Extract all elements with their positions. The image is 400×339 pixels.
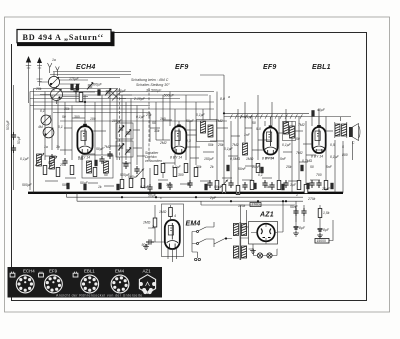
svg-text:500µF: 500µF	[22, 183, 33, 187]
svg-text:100: 100	[160, 117, 166, 121]
EM4 cathode cap	[146, 239, 154, 244]
tube top cap EBL1	[317, 117, 321, 127]
svg-text:7M2: 7M2	[216, 119, 223, 123]
oscillator coil can	[51, 86, 63, 104]
resistor row above ground bus	[43, 164, 328, 195]
svg-text:15000: 15000	[317, 239, 327, 243]
tube ECH4	[77, 126, 92, 154]
svg-text:270Ω: 270Ω	[252, 203, 261, 207]
screen feed line	[223, 112, 309, 114]
tube top cap EF9b	[269, 117, 273, 128]
svg-text:8µF: 8µF	[299, 226, 306, 230]
svg-text:a: a	[228, 95, 230, 99]
svg-text:120k: 120k	[238, 204, 246, 208]
svg-text:Schalter-Stellung 30°: Schalter-Stellung 30°	[136, 83, 170, 87]
mains switch	[192, 222, 232, 261]
switch trimmer box upper	[116, 123, 133, 139]
svg-text:1MΩ: 1MΩ	[159, 210, 167, 214]
tube EF9 (1st)	[172, 126, 187, 154]
svg-text:0,1µF: 0,1µF	[224, 147, 234, 151]
AZ1 enclosure box	[249, 222, 278, 245]
svg-text:50: 50	[62, 115, 66, 119]
svg-text:50µF: 50µF	[186, 119, 195, 123]
svg-text:8 BY 14: 8 BY 14	[170, 156, 182, 160]
svg-text:40µF: 40µF	[317, 108, 326, 112]
svg-text:0,5MΩ: 0,5MΩ	[230, 157, 241, 161]
EM4 wires	[146, 205, 177, 262]
osc trimmer	[105, 89, 111, 96]
volume pot arrow	[137, 169, 144, 177]
svg-text:EM4: EM4	[186, 221, 201, 228]
svg-text:1b: 1b	[56, 145, 60, 149]
tube EF9 (2nd)	[263, 128, 277, 155]
left frame drop wires	[14, 85, 34, 193]
socket key glyph	[73, 272, 78, 277]
wave switch dashed shaft 1	[119, 88, 121, 160]
svg-text:50: 50	[152, 121, 156, 125]
IF transformer 1 winding b	[104, 161, 109, 173]
svg-text:50: 50	[310, 165, 314, 169]
svg-text:9-0: 9-0	[256, 127, 261, 131]
chassis ground bus	[28, 192, 343, 194]
loudspeaker	[349, 124, 360, 141]
socket EM4	[111, 275, 129, 293]
black socket panel	[8, 267, 163, 298]
switch trimmer box lower	[116, 141, 133, 157]
svg-text:5nF: 5nF	[326, 165, 333, 169]
svg-text:30k: 30k	[64, 107, 70, 111]
power transformer	[234, 205, 247, 260]
svg-text:2: 2	[151, 225, 154, 229]
EM4 grid resistor	[169, 208, 173, 217]
svg-text:AZ1: AZ1	[259, 212, 274, 219]
lower distribution line	[60, 120, 227, 122]
IF transformer 2 assembly	[197, 120, 217, 142]
tube EBL1	[312, 127, 325, 153]
socket legend ECH4 label	[23, 269, 151, 274]
svg-text:500µF: 500µF	[164, 94, 175, 98]
EM4 section	[142, 204, 184, 262]
svg-text:25k: 25k	[285, 165, 292, 169]
antenna mast arrow 2	[37, 57, 43, 86]
svg-text:0,7MΩ: 0,7MΩ	[302, 159, 313, 163]
svg-text:8µF: 8µF	[323, 228, 330, 232]
svg-text:10nF: 10nF	[252, 165, 261, 169]
svg-text:1,5k: 1,5k	[323, 211, 330, 215]
svg-text:50µF: 50µF	[17, 136, 21, 144]
junction dots on ground bus	[44, 192, 321, 194]
socket key glyph	[10, 272, 15, 277]
cap pair 50nF	[290, 205, 307, 222]
svg-text:25k: 25k	[217, 143, 224, 147]
field coil 15000 box	[315, 220, 333, 243]
schematic inner frame	[12, 33, 367, 301]
svg-text:Schaltung beim : 494 C: Schaltung beim : 494 C	[131, 78, 169, 82]
svg-text:2×0,1µF: 2×0,1µF	[239, 115, 254, 119]
antenna mast arrow left	[26, 56, 31, 103]
band coil wafer 1	[41, 115, 51, 125]
svg-text:AZ1: AZ1	[143, 269, 152, 274]
junction dots on supply lines	[121, 196, 287, 202]
svg-text:7M2: 7M2	[104, 145, 111, 149]
svg-text:BD 494 A „Saturn‘‘: BD 494 A „Saturn‘‘	[23, 33, 104, 42]
tone pot arrow	[221, 180, 228, 188]
svg-text:ECH4: ECH4	[23, 269, 35, 274]
mixer grid components cluster	[73, 83, 93, 126]
svg-text:3× 500µF: 3× 500µF	[146, 89, 162, 93]
svg-text:500µF: 500µF	[6, 120, 10, 130]
svg-text:50: 50	[252, 121, 256, 125]
band coil wafer 2	[43, 127, 54, 138]
dial lamp 2	[267, 253, 272, 258]
coil fan-out wires	[40, 80, 95, 97]
svg-text:7M2: 7M2	[232, 143, 239, 147]
svg-text:50k: 50k	[196, 165, 202, 169]
decoupling cap 40uF	[311, 108, 325, 117]
svg-text:0,1µF: 0,1µF	[172, 165, 182, 169]
short wire antenna V	[48, 63, 60, 76]
svg-text:2-10µF: 2-10µF	[133, 97, 146, 101]
smoothing cap 8uF no2	[317, 205, 330, 238]
output transformer	[335, 122, 347, 138]
capacitor row	[49, 151, 321, 192]
socket AZ1	[139, 275, 156, 294]
svg-text:8-0: 8-0	[220, 97, 225, 101]
antenna coil can	[48, 72, 59, 91]
coupling coil mid	[243, 143, 248, 155]
svg-text:0,1µF: 0,1µF	[20, 157, 30, 161]
socket EBL1	[81, 275, 99, 293]
svg-text:1a: 1a	[44, 145, 48, 149]
grid cap 175pF	[69, 77, 80, 90]
svg-text:50: 50	[48, 161, 52, 165]
band switch contact crosses	[108, 89, 132, 101]
svg-text:1: 1	[296, 193, 298, 197]
svg-text:50: 50	[296, 137, 300, 141]
title box	[17, 30, 115, 47]
svg-text:5k: 5k	[266, 185, 270, 189]
svg-text:4: 4	[174, 214, 176, 218]
svg-text:20k: 20k	[35, 87, 42, 91]
extra value labels	[38, 89, 348, 191]
svg-text:0,1µF: 0,1µF	[136, 115, 146, 119]
tube EM4 magic eye	[165, 220, 180, 249]
svg-text:100µF: 100µF	[112, 119, 123, 123]
svg-text:EF9: EF9	[263, 64, 276, 71]
IF transformer 3 assembly	[283, 122, 296, 141]
svg-text:2µF: 2µF	[209, 196, 217, 200]
supply line 2	[77, 200, 303, 202]
svg-text:EBL1: EBL1	[312, 64, 331, 71]
svg-text:0,1: 0,1	[258, 173, 263, 177]
svg-text:800: 800	[342, 153, 348, 157]
svg-text:1MΩ: 1MΩ	[143, 221, 151, 225]
svg-text:0,3: 0,3	[186, 139, 191, 143]
svg-text:EF9: EF9	[175, 64, 188, 71]
svg-text:0,1µF: 0,1µF	[282, 143, 292, 147]
svg-text:50µF: 50µF	[214, 185, 223, 189]
svg-text:300: 300	[178, 173, 184, 177]
padder cap 300pF	[92, 83, 103, 96]
svg-text:1µF: 1µF	[290, 183, 297, 187]
tube AZ1 rectifier	[251, 224, 277, 244]
svg-text:Ansicht der Röhrensockel von d: Ansicht der Röhrensockel von der Unterse…	[56, 293, 143, 297]
svg-text:700: 700	[316, 173, 322, 177]
right chassis riser	[342, 141, 344, 193]
svg-text:5: 5	[342, 145, 344, 149]
svg-text:25µF: 25µF	[321, 187, 331, 191]
svg-text:50nF: 50nF	[142, 243, 151, 247]
svg-text:7M2: 7M2	[298, 123, 305, 127]
output stage verticals	[335, 117, 353, 193]
svg-text:175µF: 175µF	[69, 77, 80, 81]
svg-text:0,5: 0,5	[330, 143, 335, 147]
band switch bus lines	[30, 89, 214, 113]
left column bypass cap 1	[6, 120, 16, 140]
svg-text:50µF: 50µF	[118, 89, 127, 93]
socket ECH4	[16, 275, 34, 293]
shield hatching on AVC line	[230, 114, 302, 118]
svg-text:1k: 1k	[98, 185, 102, 189]
supply line 3	[201, 204, 295, 206]
oscillator feed lines	[50, 72, 131, 78]
svg-text:EM4: EM4	[115, 269, 125, 274]
svg-text:300µF: 300µF	[92, 83, 103, 87]
svg-text:0,1µF: 0,1µF	[140, 185, 150, 189]
choke label 270	[250, 203, 261, 207]
svg-text:50µF: 50µF	[148, 194, 157, 198]
svg-text:8 BY 14: 8 BY 14	[311, 155, 323, 159]
left column bypass cap 2	[11, 136, 21, 153]
AVC line top right	[224, 75, 351, 117]
svg-text:50nF: 50nF	[238, 167, 247, 171]
svg-text:x: x	[159, 196, 162, 200]
smoothing cap 8uF no1	[293, 201, 306, 236]
dropper resistor	[318, 209, 330, 218]
component value labels	[20, 87, 355, 229]
svg-text:0,1µF: 0,1µF	[196, 113, 206, 117]
svg-text:150µF: 150µF	[204, 157, 215, 161]
tube top cap ECH4	[83, 121, 87, 126]
svg-text:270k: 270k	[307, 197, 316, 201]
svg-text:2M2: 2M2	[159, 141, 167, 145]
EM4 series resistor left	[153, 218, 157, 227]
svg-text:1nF: 1nF	[244, 133, 251, 137]
tube top cap EF9a	[177, 121, 181, 127]
wave switch dashed shaft 2	[148, 88, 150, 160]
svg-text:8 BY 14: 8 BY 14	[262, 157, 274, 161]
svg-text:0,1: 0,1	[40, 109, 45, 113]
dark blob caps row	[66, 160, 333, 190]
connector stubs	[45, 118, 333, 186]
svg-text:300: 300	[166, 183, 172, 187]
tuning coil L1	[35, 153, 44, 166]
svg-text:4M: 4M	[38, 125, 43, 129]
socket EF9	[45, 275, 63, 293]
svg-text:1MΩ: 1MΩ	[246, 157, 254, 161]
svg-text:EBL1: EBL1	[84, 269, 95, 274]
svg-text:verbunden: verbunden	[145, 159, 162, 163]
IF1 shield box	[82, 155, 113, 178]
svg-text:100: 100	[90, 117, 96, 121]
svg-text:1a: 1a	[52, 58, 56, 62]
tuning coil L2	[48, 156, 57, 169]
svg-text:0,1µF: 0,1µF	[330, 155, 340, 159]
note text schalter verbunden	[145, 151, 162, 163]
bus-to-rail links	[67, 193, 202, 205]
IF transformer 1 winding a	[87, 161, 92, 173]
svg-text:50k: 50k	[208, 143, 214, 147]
svg-text:7M2: 7M2	[296, 151, 303, 155]
svg-text:50nF: 50nF	[290, 205, 299, 209]
svg-text:25: 25	[59, 163, 64, 167]
svg-text:25k: 25k	[145, 113, 152, 117]
svg-text:ECH4: ECH4	[76, 64, 95, 71]
AVC branch	[200, 74, 224, 76]
svg-text:300: 300	[74, 115, 80, 119]
svg-text:2k: 2k	[209, 165, 214, 169]
supply line B+	[67, 196, 304, 198]
lamp wires	[249, 249, 278, 256]
vertical drop mesh	[45, 89, 326, 193]
svg-text:0,1: 0,1	[58, 125, 63, 129]
AZ1 wiring	[240, 200, 284, 253]
svg-text:EF9: EF9	[49, 269, 58, 274]
svg-text:5nF: 5nF	[280, 157, 287, 161]
svg-text:50: 50	[104, 173, 108, 177]
socket key glyph	[39, 272, 44, 277]
svg-text:30k: 30k	[154, 129, 160, 133]
svg-text:8 BY 14: 8 BY 14	[78, 156, 90, 160]
dial lamp 1	[257, 253, 262, 258]
EF9a plate link	[186, 134, 196, 136]
